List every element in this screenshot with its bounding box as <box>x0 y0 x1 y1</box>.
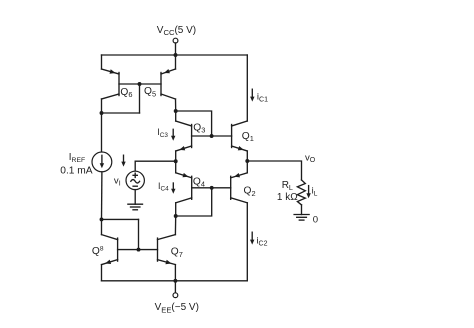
svg-text:RL: RL <box>282 180 293 192</box>
wire bottom VEE rail <box>102 280 248 282</box>
svg-text:vO: vO <box>305 152 316 164</box>
wire node A to Q3 collector <box>175 111 177 121</box>
resistor RL <box>297 180 305 205</box>
svg-text:Q4: Q4 <box>193 176 205 188</box>
current arrow iC1 <box>251 89 253 97</box>
wire Q2 emitter stem <box>246 161 248 173</box>
svg-text:Q1: Q1 <box>242 131 254 143</box>
wire Q6 collector to IREF <box>101 99 103 152</box>
svg-text:0: 0 <box>313 214 318 225</box>
transistor Q2 <box>231 173 248 203</box>
wire top VCC rail <box>102 54 248 56</box>
current arrow IC4 <box>172 183 174 190</box>
svg-text:Q7: Q7 <box>171 246 183 258</box>
transistor Q5 <box>161 69 176 99</box>
svg-text:1 kΩ: 1 kΩ <box>277 192 298 203</box>
transistor Q1 <box>232 121 248 151</box>
wire Q3-Q1 base <box>192 135 232 137</box>
transistor Q6 <box>102 69 120 99</box>
svg-text:IREF: IREF <box>69 152 85 164</box>
current arrow iL <box>308 186 310 194</box>
svg-text:Q8: Q8 <box>92 246 104 258</box>
wire Q8-Q7 base tie <box>102 219 158 251</box>
wire Q1 collector riser <box>246 55 248 121</box>
wire Q4 emitter stem <box>175 161 177 173</box>
svg-text:Q2: Q2 <box>244 186 256 198</box>
svg-text:iC1: iC1 <box>257 91 268 103</box>
wire Q5 emitter stem <box>175 55 177 69</box>
wire Q1 emitter to output node <box>245 151 249 163</box>
transistor Q8 <box>102 235 118 265</box>
wire IREF to Q8 <box>100 172 104 222</box>
wire left rail to Q6 emitter <box>101 55 103 69</box>
current arrow IC3 <box>172 129 174 136</box>
transistor Q4 <box>176 173 192 203</box>
VEE terminal <box>173 281 178 298</box>
wire Q3 base loop <box>176 111 214 138</box>
wire vI to node N3 <box>135 161 176 171</box>
svg-text:iL: iL <box>312 185 318 197</box>
svg-text:0.1 mA: 0.1 mA <box>60 165 92 176</box>
wire Q7 emitter drop <box>173 265 177 283</box>
wire Q8 emitter drop <box>101 265 103 281</box>
wire Q8 collector riser <box>101 219 103 234</box>
VCC terminal <box>173 38 178 57</box>
svg-text:IC4: IC4 <box>158 181 169 193</box>
wire output to vO <box>247 161 301 180</box>
wire Q6-Q5 base tie <box>100 82 161 115</box>
wire node B to Q7 collector <box>174 216 176 235</box>
current source IREF <box>92 152 112 172</box>
ground vI <box>128 190 143 210</box>
transistor Q7 <box>158 235 176 265</box>
svg-text:Q6: Q6 <box>120 87 132 99</box>
wire Q2 collector drop <box>246 203 248 281</box>
wire Q4-Q2 base <box>192 187 231 189</box>
wire Q5 collector drop to node A <box>174 99 178 113</box>
input current arrow <box>123 155 125 162</box>
current arrow iC2 <box>251 232 253 240</box>
svg-text:VEE(−5 V): VEE(−5 V) <box>155 302 199 314</box>
svg-text:IC3: IC3 <box>157 127 168 139</box>
ground RL <box>294 205 309 220</box>
svg-text:iC2: iC2 <box>256 236 267 248</box>
svg-text:Q5: Q5 <box>144 86 156 98</box>
svg-text:Q3: Q3 <box>193 122 205 134</box>
svg-text:vI: vI <box>114 175 121 187</box>
wire Q3 emitter drop <box>174 151 178 163</box>
wire Q4 base loop <box>176 186 214 216</box>
svg-text:VCC(5 V): VCC(5 V) <box>157 25 196 37</box>
wire Q4 collector drop to node B <box>174 203 178 218</box>
transistor Q3 <box>176 121 192 151</box>
source vI <box>126 171 144 189</box>
